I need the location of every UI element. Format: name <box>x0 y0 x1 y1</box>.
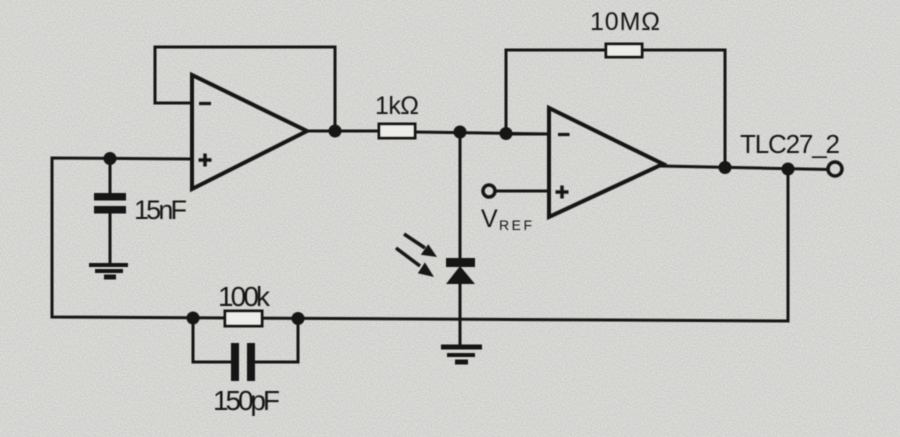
wire: Vref terminal to op-amp2 + input <box>496 190 549 193</box>
ground below photodiode <box>441 347 482 362</box>
ground below C1 <box>89 265 128 277</box>
node dot: op-amp1 + input junction <box>104 152 117 165</box>
node dot: output feedback junction <box>782 163 795 176</box>
resistor R3 100k <box>225 311 262 326</box>
capacitor C2 150pF <box>231 343 255 381</box>
svg-text:150pF: 150pF <box>213 385 280 416</box>
wire: op-amp2 feedback loop with 10M <box>506 50 606 134</box>
light arrow 1 <box>404 234 437 257</box>
svg-text:V: V <box>481 205 498 233</box>
node dot: 100k right junction <box>292 312 305 325</box>
capacitor C1 15nF <box>94 193 126 214</box>
Vref terminal circle <box>483 185 495 197</box>
wire: 15nF branch lower segment to ground <box>109 213 112 265</box>
op-amp U1 <box>192 75 307 189</box>
wire: 1k resistor to op-amp2 inverting input <box>415 132 549 134</box>
svg-text:100k: 100k <box>218 281 271 312</box>
node dot: op-amp1 output junction <box>329 125 342 138</box>
light arrow 2 <box>396 248 434 277</box>
svg-text:REF: REF <box>499 217 532 233</box>
wire: 150pF bypass right leg <box>255 319 298 362</box>
wire: photodiode branch upper segment <box>459 132 462 259</box>
node dot: photodiode top junction <box>454 126 467 139</box>
node dot: op-amp2 inverting input junction <box>500 127 513 140</box>
wire: op-amp1 feedback loop top <box>155 47 335 131</box>
node dot: 100k left junction <box>187 312 200 325</box>
op-amp U2 <box>549 108 663 217</box>
node dot: op-amp2 output junction <box>719 161 732 174</box>
wire: 15nF branch upper segment <box>109 159 112 194</box>
output terminal circle <box>828 162 842 176</box>
svg-text:TLC27_2: TLC27_2 <box>740 129 840 159</box>
wire: op-amp2 output to terminal <box>661 166 828 170</box>
wire: 10M right side of feedback loop <box>642 50 725 167</box>
svg-text:15nF: 15nF <box>134 195 187 225</box>
resistor R2 10M <box>606 44 642 57</box>
wire: op-amp1 + input to left rail, down, and bottom feedback run <box>52 158 788 321</box>
wire: right rail from output down to bottom wire <box>787 169 790 321</box>
wire: op-amp1 output to 1k resistor <box>305 130 379 133</box>
svg-text:10MΩ: 10MΩ <box>590 8 660 36</box>
wire: 150pF bypass left leg <box>193 318 231 362</box>
svg-text:1kΩ: 1kΩ <box>375 92 419 120</box>
photodiode D1 <box>446 258 475 284</box>
wire: photodiode branch lower segment to ground <box>459 283 462 346</box>
resistor R1 1k <box>379 124 415 138</box>
